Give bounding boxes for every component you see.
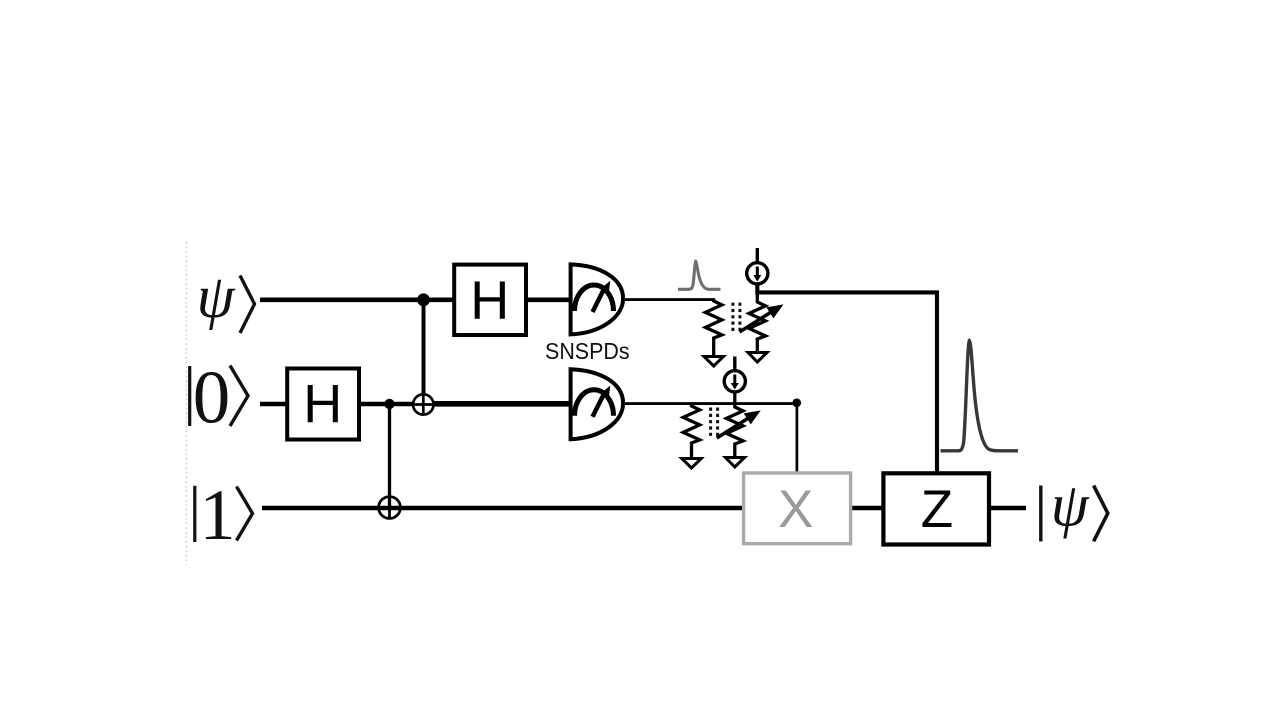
wire detector2 output <box>621 402 797 405</box>
wire detector1 output <box>621 298 715 301</box>
arrow through Rv1 <box>740 312 773 333</box>
wire qubit2 segment H to cnot target <box>357 402 424 406</box>
wire Z to output <box>987 506 1026 511</box>
wire cnot1 vertical (q2 control to q3 target) <box>388 404 391 508</box>
resistor R1 <box>705 298 722 356</box>
wire node1 to Z gate <box>757 284 937 475</box>
detector D2 (SNSPD) on qubit2 <box>571 369 624 439</box>
gate H1 on qubit2 <box>287 369 359 440</box>
current source I2 <box>724 357 745 392</box>
node junction dot on detector2 output <box>792 398 801 407</box>
svg-text:Z: Z <box>921 480 953 539</box>
svg-text:SNSPDs: SNSPDs <box>545 338 630 364</box>
variable resistor Rv1 <box>749 284 766 353</box>
cnot target on qubit3 <box>379 497 401 519</box>
node input label ket 1 <box>195 475 253 555</box>
ground under R2 <box>682 459 701 469</box>
coupling dotted line network1 <box>733 303 740 334</box>
wire junction to X gate <box>796 403 799 474</box>
svg-text:H: H <box>470 271 509 331</box>
current source I1 <box>747 248 768 284</box>
variable resistor Rv2 <box>727 392 744 458</box>
arrow through Rv2 <box>717 418 750 439</box>
wire qubit2 segment left stub <box>260 402 290 407</box>
svg-text:ψ: ψ <box>1051 472 1090 539</box>
svg-text:H: H <box>303 374 342 434</box>
wire cnot2 vertical (q1 control to q2 target) <box>422 300 426 405</box>
wire X to Z <box>849 506 886 511</box>
gate H2 on qubit1 <box>454 265 526 335</box>
svg-text:1: 1 <box>200 475 236 555</box>
svg-text:0: 0 <box>193 357 231 440</box>
ground under Rv1 <box>748 353 767 363</box>
wire qubit1 segment left <box>260 297 456 302</box>
node input label psi ket <box>197 264 255 333</box>
node input label ket 0 <box>190 357 248 440</box>
detector D1 (SNSPD) on qubit1 <box>571 264 624 334</box>
gate X (feed-forward, inactive gray) <box>744 473 851 544</box>
node output label psi ket <box>1041 472 1108 541</box>
cnot target on qubit2 <box>413 394 433 414</box>
coupling dotted line network2 <box>711 408 718 440</box>
resistor R2 <box>683 404 700 459</box>
svg-text:X: X <box>778 480 813 539</box>
svg-text:ψ: ψ <box>197 264 236 331</box>
node control dot on qubit2 <box>384 399 394 409</box>
gate Z (feed-forward) <box>883 473 989 544</box>
wire qubit1 segment H to detector <box>524 297 572 302</box>
ground under Rv2 <box>726 458 745 468</box>
wire qubit3 <box>262 506 744 511</box>
wire qubit2 segment cnot to detector (thick) <box>424 401 572 407</box>
pulse waveform small gray <box>678 261 721 289</box>
ground under R1 <box>704 357 723 367</box>
pulse waveform large dark <box>941 341 1019 451</box>
node control dot on qubit1 <box>417 293 430 306</box>
